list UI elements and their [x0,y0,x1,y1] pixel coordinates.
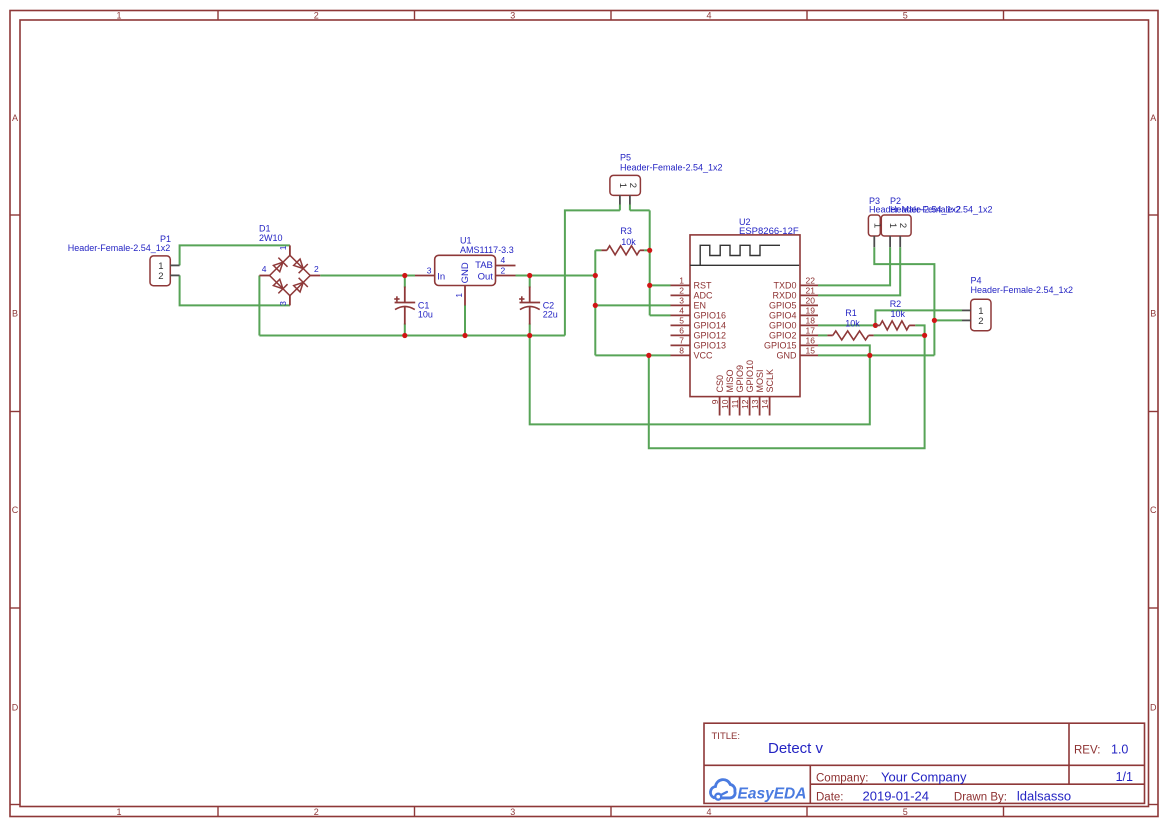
resistor R1 10k zigzag [833,331,869,340]
C2 top plate [520,302,541,304]
C1 bottom lead [404,307,406,325]
P4 pin1 stub [962,309,971,311]
svg-text:5: 5 [903,807,908,817]
U1 pin1 GND stub [464,286,466,306]
svg-text:R1: R1 [845,308,857,318]
U2 pin 1 RST stub [671,284,691,286]
svg-text:1: 1 [116,807,121,817]
U2 pin 12 GPIO10 stub [749,397,751,416]
svg-text:22u: 22u [543,309,558,319]
D1 pin1 stub top [289,245,291,255]
wire P5 pin2 lead [629,205,631,211]
svg-text:Date:: Date: [816,792,844,804]
wire P1 pin2 to D1 pin3 (AC in bottom) [180,275,290,305]
R3 left lead [601,249,607,251]
wire R3 right lead [644,249,650,251]
svg-text:ESP8266-12F: ESP8266-12F [739,226,799,237]
resistor R2 10k zigzag [880,321,909,330]
svg-text:P4: P4 [971,276,982,286]
svg-text:GPIO9: GPIO9 [735,365,745,393]
U2 pin 16 GPIO15 stub [800,344,818,346]
svg-text:3: 3 [278,301,288,306]
svg-text:EasyEDA: EasyEDA [738,786,807,803]
wire VCC return loop [649,335,925,448]
wire U2 pin22 TXD0 to P2 pin1 [818,247,890,285]
wire U2 pin21 RXD0 to P2 pin2 [818,247,900,295]
svg-text:GPIO2: GPIO2 [769,331,797,341]
P5 pin2 stub [629,195,631,204]
junction RST [647,283,652,288]
U2 pin 22 TXD0 stub [800,284,818,286]
junction GND P4 pin2 [932,318,937,323]
junction R3/P5 pin2 [647,248,652,253]
C2 polarity plus sign [519,298,524,300]
svg-text:19: 19 [806,306,816,316]
P4 pin2 stub [962,319,971,321]
U2 pin 10 MISO stub [729,397,731,416]
svg-text:VCC: VCC [694,351,714,361]
svg-text:Detect v: Detect v [768,740,824,757]
svg-text:D: D [1150,703,1157,713]
R1 left lead [827,334,832,336]
wire GND return loop [530,336,870,425]
title block divider company/date rows [810,783,1144,785]
svg-text:4: 4 [679,306,684,316]
svg-text:4: 4 [706,11,711,21]
svg-text:CS0: CS0 [715,375,725,393]
svg-text:2: 2 [314,11,319,21]
svg-text:18: 18 [806,316,816,326]
svg-text:GPIO15: GPIO15 [764,341,797,351]
svg-text:11: 11 [730,399,740,408]
D1 diode element lower-left (4 to 3) [272,278,288,294]
wire U2 pin17 GPIO2 to R1 [818,334,827,336]
C1 top plate [395,302,416,304]
wire D1 pin4 to GND rail [258,276,260,336]
U2 pin 3 EN stub [671,304,691,306]
D1 pin3 stub bottom [289,296,291,306]
U2 antenna meander [700,245,780,265]
svg-text:10k: 10k [891,309,906,319]
wire R1 right to pullup node [874,334,925,336]
D1 diode element lower-right (3 to 2) [292,278,308,294]
svg-text:2: 2 [314,264,319,274]
svg-text:Header-Female-2.54_1x2: Header-Female-2.54_1x2 [890,205,993,215]
P1 pin1 stub [170,264,179,266]
svg-text:15: 15 [806,346,816,356]
svg-text:2: 2 [897,223,908,228]
wire VCC to U2 pin8 [595,354,670,356]
svg-text:Header-Female-2.54_1x2: Header-Female-2.54_1x2 [971,285,1074,295]
svg-text:9: 9 [710,399,720,404]
connector P3 Header-Male-2.54_1x2 body [868,215,880,236]
P1 pin2 stub [170,274,179,276]
connector P5 Header-Female-2.54_1x2 body [610,175,641,195]
svg-text:2: 2 [314,807,319,817]
C2 bottom lead [529,307,531,325]
svg-text:1: 1 [679,276,684,286]
svg-text:R2: R2 [890,299,902,309]
U2 pin 5 GPIO14 stub [671,324,691,326]
wire U2 pin16 GPIO15 to GND [818,345,870,355]
svg-text:GND: GND [777,351,798,361]
title block outline [704,723,1145,803]
svg-text:RXD0: RXD0 [772,291,796,301]
svg-text:12: 12 [740,399,750,409]
svg-text:13: 13 [750,399,760,409]
U1 pin2 Out stub [496,275,516,277]
wire C2 top lead [529,276,531,288]
R1 right lead [869,334,874,336]
svg-text:Drawn By:: Drawn By: [954,792,1007,804]
junction GPIO0/R2/P4 [873,323,878,328]
wire P1 pin1 to D1 pin1 (AC in top) [180,245,290,265]
U2 pin 18 GPIO0 stub [800,324,818,326]
svg-text:Header-Female-2.54_1x2: Header-Female-2.54_1x2 [68,243,171,253]
U1 pin4 TAB stub [496,265,516,267]
svg-text:In: In [437,271,445,282]
regulator U1 AMS1117-3.3 body [435,255,496,285]
svg-text:2019-01-24: 2019-01-24 [863,789,930,804]
EasyEDA logo cloud icon [710,780,735,800]
svg-text:3: 3 [427,265,432,275]
svg-text:1.0: 1.0 [1111,743,1128,757]
svg-text:2: 2 [679,286,684,296]
svg-text:2: 2 [627,183,638,188]
svg-text:GPIO4: GPIO4 [769,311,797,321]
svg-text:2: 2 [978,316,983,327]
junction 3V3 Out/R3/EN [593,273,598,278]
U2 pin 8 VCC stub [671,354,691,356]
svg-text:4: 4 [262,264,267,274]
connector P1 Header-Female-2.54_1x2 body [150,256,170,286]
svg-text:GPIO12: GPIO12 [694,331,727,341]
U2 pin 6 GPIO12 stub [671,334,691,336]
svg-text:21: 21 [806,286,816,296]
svg-text:14: 14 [760,399,770,409]
svg-text:10k: 10k [845,319,860,329]
svg-text:7: 7 [679,336,684,346]
connector P4 Header-Female-2.54_1x2 body [971,299,991,331]
junction EN branch [593,303,598,308]
svg-text:Header-Female-2.54_1x2: Header-Female-2.54_1x2 [620,162,723,172]
frame row ticks left [10,214,20,216]
wire EN to U2 pin3 [595,304,670,306]
svg-text:4: 4 [706,807,711,817]
svg-text:GPIO10: GPIO10 [745,360,755,393]
svg-text:2W10: 2W10 [259,233,283,243]
title block divider REV column [1068,723,1070,784]
wire R2 right to pullup node [915,325,924,335]
module U2 ESP8266-12F body [690,235,800,397]
wire RST vertical spine [649,210,651,315]
junction U1 GND rail [462,333,467,338]
junction VCC branch [646,353,651,358]
svg-text:RST: RST [694,281,713,291]
junction GND GPIO15 [867,353,872,358]
svg-text:D: D [12,703,19,713]
C1 polarity plus sign [394,298,399,300]
frame row ticks right [1149,214,1159,216]
svg-text:2: 2 [158,271,163,282]
svg-text:4: 4 [501,255,506,265]
R3 right lead [640,249,645,251]
svg-text:20: 20 [806,296,816,306]
U2 pin 20 GPIO5 stub [800,304,818,306]
svg-text:C: C [1150,505,1157,515]
R2 right lead [909,324,915,326]
wire RST to U2 pin1 [650,284,671,286]
wire U1 Out to 3V3 node [516,275,596,277]
svg-text:1: 1 [617,183,628,188]
svg-text:MOSI: MOSI [755,369,765,392]
svg-text:1: 1 [116,11,121,21]
junction C2 bottom rail [527,333,532,338]
wire U1 GND pin to rail [464,305,466,336]
U2 pin 13 MOSI stub [759,397,761,416]
svg-text:8: 8 [679,346,684,356]
wire 3V3 vertical spine R3-EN-VCC [594,250,596,355]
svg-text:ldalsasso: ldalsasso [1017,789,1071,804]
wire C2 bottom lead [529,324,531,336]
svg-text:A: A [1150,113,1156,123]
junction R1/R2 pullup VCC [922,333,927,338]
svg-text:Company:: Company: [816,773,868,785]
svg-text:5: 5 [903,11,908,21]
svg-text:TAB: TAB [475,260,493,271]
svg-text:3: 3 [679,296,684,306]
U2 pin 11 GPIO9 stub [739,397,741,416]
svg-text:16: 16 [806,336,816,346]
D1 diode element upper-left (4 to 1) [272,258,288,274]
P5 pin1 stub [619,195,621,204]
title block divider logo cell [809,765,811,803]
U2 pin 19 GPIO4 stub [800,314,818,316]
wire RST to U2 pin4 GPIO16 [650,314,671,316]
wire U2 pin18 GPIO0 to R2 node [818,324,875,326]
U2 pin 14 SCLK stub [769,397,771,416]
svg-text:AMS1117-3.3: AMS1117-3.3 [460,245,514,255]
junction C1 top [402,273,407,278]
C2 curved bottom plate [520,306,540,309]
svg-text:REV:: REV: [1074,745,1100,757]
svg-text:2: 2 [501,265,506,275]
wire GND riser to P4 pin2 [934,319,962,321]
P2 pin1 stub [889,236,891,247]
wire GPIO0 node to P4 pin1 [875,310,962,325]
U2 pin 21 RXD0 stub [800,294,818,296]
wire GND riser to P3 pin1 [874,247,934,355]
U2 pin 7 GPIO13 stub [671,344,691,346]
svg-text:R3: R3 [620,226,632,236]
R2 left lead [875,324,880,326]
svg-text:10u: 10u [418,309,433,319]
D1 pin2 stub right [310,275,320,277]
P3 pin1 stub [873,236,875,247]
wire C1 top lead [404,276,406,288]
svg-text:ADC: ADC [694,291,714,301]
svg-text:EN: EN [694,301,707,311]
svg-text:MISO: MISO [725,369,735,392]
junction C2 top [527,273,532,278]
U2 pin 2 ADC stub [671,294,691,296]
svg-text:GPIO13: GPIO13 [694,341,727,351]
svg-text:6: 6 [679,326,684,336]
svg-text:Out: Out [478,271,494,282]
U2 pin 9 CS0 stub [719,397,721,416]
D1 diode element upper-right (1 to 2) [292,258,308,274]
svg-text:GPIO5: GPIO5 [769,301,797,311]
svg-text:10: 10 [720,399,730,409]
svg-text:1: 1 [278,245,288,250]
svg-text:1: 1 [454,293,464,298]
wire P5 pin1 to GND rail [565,210,620,335]
svg-text:P5: P5 [620,152,631,162]
C1 curved bottom plate [395,306,415,309]
wire D1 pin2 to U1 In [320,275,415,277]
U2 pin 15 GND stub [800,354,818,356]
svg-text:C: C [12,505,19,515]
svg-text:3: 3 [510,807,515,817]
wire P5 pin1 lead [619,205,621,211]
U2 pin 17 GPIO2 stub [800,334,818,336]
svg-text:22: 22 [806,276,816,286]
wire R3 left lead [595,249,601,251]
svg-text:GND: GND [460,262,471,283]
D1 pin4 stub left [259,275,269,277]
wire C1 bottom lead [404,324,406,336]
capacitor C2 top lead [529,287,531,303]
svg-text:A: A [12,113,18,123]
svg-text:1/1: 1/1 [1116,770,1133,784]
U2 pin 4 GPIO16 stub [671,314,691,316]
svg-text:SCLK: SCLK [765,369,775,393]
frame column ticks bottom [217,807,219,817]
wire U2 pin15 GND to P3 riser [818,354,934,356]
U1 pin3 In stub [415,275,435,277]
svg-text:GPIO0: GPIO0 [769,321,797,331]
svg-text:GPIO16: GPIO16 [694,311,727,321]
svg-text:B: B [12,309,18,319]
U2 antenna separator line [690,264,799,266]
svg-text:GPIO14: GPIO14 [694,321,727,331]
frame column ticks top [217,11,219,21]
svg-text:D1: D1 [259,224,271,234]
svg-text:3: 3 [510,11,515,21]
capacitor C1 top lead [404,287,406,303]
svg-text:10k: 10k [621,237,636,247]
junction C1 bottom rail [402,333,407,338]
diode bridge D1 2W10 diamond outline [270,255,311,295]
connector P2 Header-Female-2.54_1x2 body [881,215,911,236]
svg-text:U1: U1 [460,236,472,246]
svg-text:TXD0: TXD0 [773,281,796,291]
svg-text:B: B [1150,309,1156,319]
svg-text:Your Company: Your Company [881,770,967,785]
P2 pin2 stub [899,236,901,247]
svg-text:5: 5 [679,316,684,326]
title block divider under title row [704,764,1145,766]
wire P5 pin2 to RST spine [630,209,650,211]
resistor R3 10k zigzag [607,246,640,255]
wire GND rail [259,335,565,337]
svg-text:TITLE:: TITLE: [712,731,741,742]
svg-text:17: 17 [806,326,816,336]
svg-text:1: 1 [887,223,898,228]
